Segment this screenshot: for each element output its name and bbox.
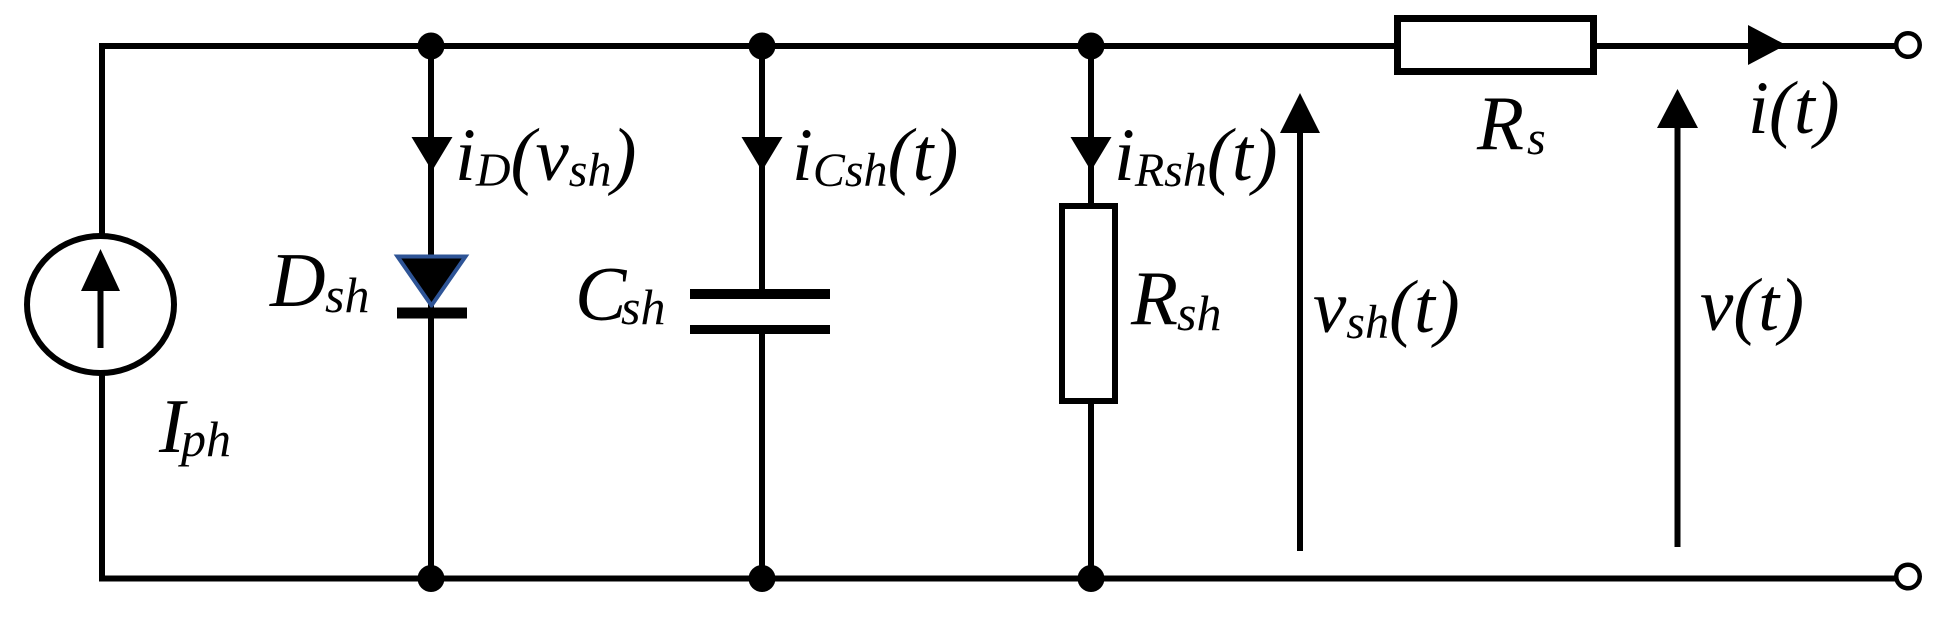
svg-text:ph: ph (178, 411, 231, 467)
svg-text:R: R (1476, 80, 1524, 166)
svg-text:R: R (1130, 255, 1178, 341)
svg-text:s: s (1527, 112, 1546, 165)
svg-text:sh: sh (325, 267, 369, 323)
svg-text:vsh(t): vsh(t) (1313, 266, 1460, 349)
svg-text:iCsh(t): iCsh(t) (792, 114, 958, 197)
svg-text:sh: sh (1177, 285, 1221, 341)
svg-text:iRsh(t): iRsh(t) (1114, 114, 1278, 197)
svg-text:v(t): v(t) (1700, 264, 1804, 347)
svg-text:i(t): i(t) (1748, 67, 1840, 150)
svg-text:sh: sh (621, 279, 665, 335)
svg-text:iD(vsh): iD(vsh) (455, 114, 636, 197)
svg-text:D: D (269, 237, 326, 323)
